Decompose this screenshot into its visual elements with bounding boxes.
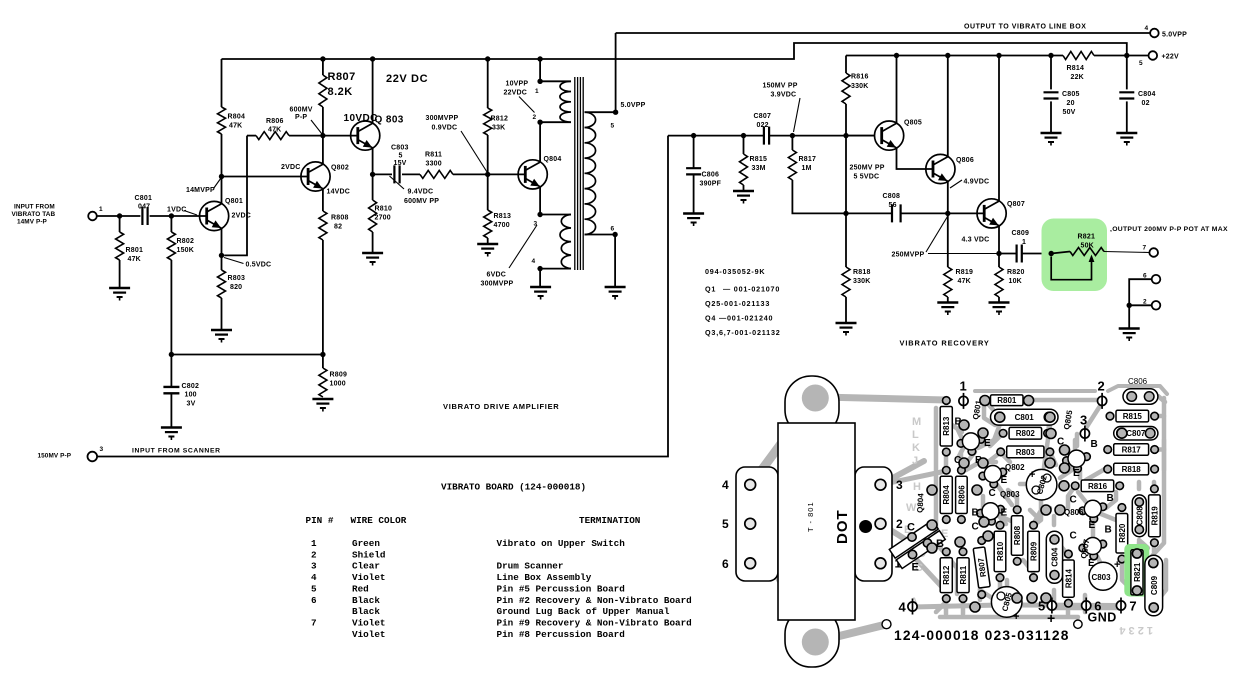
resistor R817 pcb — [1114, 444, 1149, 456]
trace r811 bottom — [961, 598, 966, 614]
R819 top pad — [1151, 485, 1159, 493]
R817 right pad — [1151, 446, 1159, 454]
resistor R812 pcb — [940, 558, 952, 593]
C804 inner bottom pad — [1050, 571, 1059, 580]
ground R813 — [477, 243, 498, 245]
trace r808 top — [1008, 490, 1017, 510]
svg-text:B: B — [972, 508, 979, 519]
via pad 15 — [1059, 481, 1069, 491]
svg-text:5: 5 — [399, 153, 403, 160]
svg-text:4.3 VDC: 4.3 VDC — [962, 237, 990, 244]
svg-text:R801: R801 — [126, 247, 144, 254]
via pad 10 — [978, 458, 988, 468]
svg-text:+: + — [1114, 559, 1120, 571]
wire input to C801 — [97, 215, 140, 217]
R815 right pad — [1151, 412, 1159, 420]
svg-text:M: M — [912, 416, 921, 428]
svg-text:Pin #9 Recovery & Non-Vibrato: Pin #9 Recovery & Non-Vibrato Board — [497, 618, 692, 629]
ground R815 — [733, 190, 754, 192]
svg-text:150MV PP: 150MV PP — [763, 83, 798, 90]
wire R820 to ground — [998, 297, 1000, 303]
node bottom rail right — [320, 352, 325, 357]
resistor R806 — [256, 132, 289, 140]
trace board top right edge — [1108, 386, 1167, 394]
svg-text:300MVPP: 300MVPP — [426, 115, 459, 122]
wire recovery input left — [668, 135, 763, 137]
transistor Q805 pcb — [1068, 450, 1085, 467]
svg-text:OUTPUT TO VIBRATO LINE BOX: OUTPUT TO VIBRATO LINE BOX — [964, 24, 1086, 31]
transistor Q801 pcb pad b — [957, 440, 965, 448]
svg-text:L: L — [912, 429, 919, 441]
ground C806 — [683, 212, 704, 214]
R804 bottom pad — [943, 516, 951, 524]
svg-text:330K: 330K — [853, 278, 871, 285]
svg-text:R821: R821 — [1133, 562, 1142, 582]
svg-text:124-000018 023-031128: 124-000018 023-031128 — [894, 628, 1070, 643]
svg-text:82: 82 — [334, 224, 342, 231]
phi pad 3 — [1080, 429, 1089, 438]
svg-text:TERMINATION: TERMINATION — [579, 515, 640, 526]
wire R806 left stub — [247, 135, 256, 137]
trace r813 to r804 — [944, 452, 949, 470]
svg-text:1: 1 — [535, 88, 539, 95]
wire Q806 collector — [947, 56, 949, 157]
svg-text:1VDC: 1VDC — [167, 207, 186, 214]
wire R812 bottom — [487, 135, 489, 174]
wire Q804 emitter — [539, 187, 541, 215]
svg-text:600MV: 600MV — [290, 107, 313, 114]
wire recovery rail — [846, 55, 1063, 57]
trace q802 web — [966, 462, 996, 470]
ground xfmr pin4 — [530, 286, 551, 288]
resistor R820 pcb — [1116, 514, 1128, 554]
pointer 0.5VDC — [224, 258, 244, 264]
terminal pin 5 +22V — [1149, 51, 1158, 60]
svg-text:14VDC: 14VDC — [327, 189, 351, 196]
wire terminal 2 — [1129, 304, 1152, 306]
svg-text:4700: 4700 — [494, 222, 510, 229]
wire R806 to node — [289, 135, 323, 137]
transformer T801 primary lower winding — [560, 215, 571, 269]
wire R817 top — [791, 136, 793, 150]
node Q807 rail — [996, 53, 1001, 58]
svg-text:+: + — [1013, 611, 1019, 623]
trace c805 up — [1005, 580, 1010, 590]
svg-text:B: B — [1091, 439, 1098, 450]
node C805 rail — [1048, 53, 1053, 58]
svg-text:C807: C807 — [754, 113, 772, 120]
svg-text:C805: C805 — [1062, 91, 1080, 98]
svg-text:+: + — [1047, 610, 1055, 626]
R807 bottom pad — [978, 591, 986, 599]
pad C809 top — [1149, 558, 1158, 567]
transistor Q803 — [351, 121, 380, 150]
svg-text:DOT: DOT — [834, 509, 851, 544]
R810 bottom pad — [996, 574, 1004, 582]
transistor Q801 — [200, 201, 229, 230]
resistor R802 — [167, 232, 175, 260]
R818 left pad — [1104, 465, 1112, 473]
capacitor C801 — [142, 207, 147, 225]
svg-text:Q804: Q804 — [544, 156, 562, 163]
resistor R801 — [116, 232, 124, 260]
wire terminal 6 — [1129, 279, 1152, 328]
svg-text:2VDC: 2VDC — [281, 164, 300, 171]
R806 bottom pad — [958, 516, 966, 524]
svg-text:15V: 15V — [394, 160, 407, 167]
node bottom rail left — [169, 352, 174, 357]
svg-text:150MV P-P: 150MV P-P — [38, 453, 72, 460]
via pad 16 — [1117, 428, 1127, 438]
R801 right pad — [1025, 397, 1033, 405]
svg-text:R812: R812 — [491, 116, 509, 123]
ground terminals — [1119, 327, 1140, 329]
svg-text:4: 4 — [532, 258, 536, 265]
trace c805 left — [980, 590, 992, 598]
wire R818 to ground — [845, 297, 847, 323]
resistor R818 — [842, 267, 850, 297]
trace r820 down — [1122, 560, 1130, 588]
trace c808 to r819 — [1139, 540, 1148, 548]
svg-text:5: 5 — [722, 517, 729, 531]
transistor Q804 pcb — [889, 520, 945, 568]
transistor Q803 pcb pad c — [997, 505, 1005, 513]
capacitor C804 pcb — [1046, 531, 1062, 583]
resistor R807 pcb — [973, 547, 990, 588]
wire R813 bottom — [487, 238, 489, 244]
node xfmr pin1 rail — [537, 56, 542, 61]
svg-text:J: J — [912, 455, 918, 467]
node xfmr pin4 — [537, 266, 542, 271]
svg-text:6: 6 — [611, 226, 615, 233]
trace mid vertical — [1073, 440, 1078, 452]
transistor Q806 — [926, 154, 955, 183]
pointer 4.9VDC — [950, 180, 962, 188]
svg-text:VIBRATO DRIVE AMPLIFIER: VIBRATO DRIVE AMPLIFIER — [443, 402, 559, 411]
C808 inner top pad — [1135, 498, 1143, 506]
wire pin5 stub — [585, 111, 616, 113]
svg-text:R816: R816 — [851, 74, 869, 81]
transistor Q807 pcb pad b — [1079, 544, 1087, 552]
svg-text:Drum Scanner: Drum Scanner — [497, 561, 564, 572]
wire C804 top — [1126, 56, 1128, 90]
svg-text:C802: C802 — [182, 383, 200, 390]
svg-text:C808: C808 — [1135, 506, 1144, 526]
svg-text:R817: R817 — [799, 156, 817, 163]
svg-text:E: E — [1089, 520, 1096, 531]
svg-text:47K: 47K — [229, 123, 242, 130]
svg-text:47K: 47K — [958, 278, 971, 285]
svg-text:Red: Red — [352, 583, 369, 594]
svg-text:R801: R801 — [997, 396, 1017, 405]
svg-text:250MVPP: 250MVPP — [892, 252, 925, 259]
transistor Q801 pcb pad e — [968, 448, 976, 456]
resistor R809 — [319, 368, 327, 397]
R812 bottom pad — [943, 595, 951, 603]
wire Q806 emitter — [947, 182, 949, 214]
svg-text:VIBRATO TAB: VIBRATO TAB — [12, 211, 56, 218]
capacitor C809 — [1017, 245, 1022, 263]
trace q807 to c803 — [1097, 556, 1100, 562]
svg-text:7: 7 — [1143, 245, 1147, 252]
trace r818 left — [1086, 469, 1105, 480]
wire R803 to ground — [221, 298, 223, 330]
wire R807 bottom — [322, 107, 324, 136]
trace r810 bottom — [998, 578, 1003, 600]
highlight R821 — [1042, 219, 1108, 292]
pointer 1VDC — [184, 211, 197, 216]
via pad 1 — [980, 396, 990, 406]
trace c801 to c802 — [1044, 425, 1050, 467]
svg-text:56: 56 — [889, 202, 897, 209]
R813 top pad — [943, 397, 951, 405]
svg-text:Q802: Q802 — [1005, 463, 1025, 472]
svg-text:1: 1 — [99, 206, 103, 213]
via pad 20 — [1055, 505, 1065, 515]
svg-text:2: 2 — [311, 549, 317, 560]
wire R809 top — [322, 355, 324, 369]
svg-text:50K: 50K — [1081, 243, 1094, 250]
resistor R815 — [740, 154, 748, 185]
svg-text:Q4 —001-021240: Q4 —001-021240 — [705, 314, 773, 323]
via pad 18 — [979, 517, 989, 527]
node input junction R801 — [117, 213, 122, 218]
resistor R819 pcb — [1149, 495, 1161, 537]
svg-text:R811: R811 — [425, 152, 442, 159]
wire R813 top — [487, 174, 489, 210]
transistor Q804 — [518, 160, 547, 189]
node C806 — [691, 133, 696, 138]
trace c806 wrap — [1158, 396, 1165, 402]
trace board right edge — [1152, 398, 1164, 556]
pad R821 bottom — [1132, 586, 1141, 595]
svg-text:GND: GND — [1088, 611, 1117, 625]
svg-text:Q3,6,7-001-021132: Q3,6,7-001-021132 — [705, 328, 781, 337]
node xfmr pin2 — [537, 120, 542, 125]
wire R802 to bottom rail — [170, 260, 172, 355]
svg-text:— 001-021070: — 001-021070 — [723, 285, 780, 294]
svg-text:VIBRATO BOARD (124-000018): VIBRATO BOARD (124-000018) — [441, 482, 586, 493]
svg-text:R803: R803 — [1016, 448, 1036, 457]
R820 top pad — [1118, 504, 1126, 512]
wire rail to terminal 5 — [1094, 55, 1149, 57]
svg-text:Ground Lug Back of Upper Manua: Ground Lug Back of Upper Manual — [497, 606, 670, 617]
svg-text:R813: R813 — [494, 213, 512, 220]
trace bottom lobe right — [815, 625, 884, 642]
svg-text:R814: R814 — [1064, 568, 1073, 588]
transformer T801 top tab — [785, 376, 839, 436]
svg-text:6: 6 — [722, 557, 729, 571]
capacitor C802 — [163, 387, 179, 393]
node Q803 emitter — [370, 172, 375, 177]
trace bottom left diag — [936, 602, 946, 612]
svg-text:390PF: 390PF — [700, 181, 722, 188]
wire R802 column — [170, 216, 172, 232]
via pad 6 — [978, 428, 988, 438]
node Q807 emitter — [996, 251, 1001, 256]
wire R821 to terminal 7 — [1104, 252, 1149, 253]
transistor Q805 pcb pad c — [1083, 453, 1091, 461]
svg-text:R806: R806 — [266, 118, 284, 125]
svg-text:5: 5 — [611, 123, 615, 130]
trace transformer top to pad4 — [752, 399, 814, 483]
resistor R812 — [484, 108, 492, 135]
R804 top pad — [943, 467, 951, 475]
svg-text:Q807: Q807 — [1007, 201, 1025, 208]
resistor R817 — [788, 150, 796, 180]
transformer pad 1 — [875, 558, 886, 569]
wire Q801 emitter — [221, 229, 223, 256]
wire pin3 stub — [540, 214, 571, 216]
trace board left edge — [936, 408, 957, 594]
wire R819 riser — [947, 213, 949, 267]
svg-text:C804: C804 — [1050, 547, 1059, 567]
resistor R810 pcb — [994, 531, 1006, 571]
via pad 25 — [970, 602, 980, 612]
svg-text:1000: 1000 — [330, 381, 346, 388]
R817 left pad — [1104, 446, 1112, 454]
trace phi5 to phi6 — [1052, 606, 1120, 611]
capacitor C807 pcb — [1114, 427, 1158, 441]
wire output bus — [616, 32, 1151, 34]
svg-text:R819: R819 — [956, 269, 974, 276]
via pad 8 — [1060, 445, 1070, 455]
svg-text:Q 803: Q 803 — [375, 115, 404, 126]
resistor R803 — [218, 270, 226, 298]
svg-text:022: 022 — [757, 122, 769, 129]
svg-text:Q801: Q801 — [225, 198, 243, 205]
svg-text:C803: C803 — [1091, 573, 1111, 582]
pointer 600MV P-P — [311, 120, 322, 134]
trace q807 up — [1091, 524, 1096, 537]
resistor R819 — [944, 267, 952, 297]
capacitor C809 pcb — [1145, 555, 1163, 616]
trace r809 top up — [1033, 508, 1050, 525]
wire R808 to bottom rail — [322, 240, 324, 355]
wire pin5 riser — [615, 33, 617, 112]
wire Q803 collector — [372, 59, 374, 123]
transistor Q802 pcb pad e — [990, 480, 998, 488]
svg-text:1: 1 — [1022, 239, 1026, 246]
trace c801 left diag — [985, 401, 1000, 418]
svg-text:1: 1 — [311, 538, 317, 549]
svg-text:R819: R819 — [1150, 506, 1159, 526]
capacitor C803 — [394, 165, 399, 183]
svg-text:2VDC: 2VDC — [232, 213, 251, 220]
svg-text:C801: C801 — [135, 195, 153, 202]
svg-text:C: C — [972, 522, 979, 533]
node Q803 base junction — [320, 133, 325, 138]
resistor R818 pcb — [1114, 463, 1149, 475]
R818 right pad — [1151, 465, 1159, 473]
svg-text:C: C — [1070, 531, 1077, 542]
capacitor C806 pcb — [1123, 389, 1158, 404]
wire pin4 stub — [540, 268, 571, 270]
trace bottom bus — [1015, 603, 1121, 609]
node Q806 rail — [945, 53, 950, 58]
R803 left pad — [997, 448, 1005, 456]
terminal pin 1 input — [88, 212, 97, 221]
via pad 26 — [955, 537, 965, 547]
wire pin6 to ground — [614, 235, 616, 288]
wire Q802 collector — [322, 136, 324, 165]
node Q805 base junction — [843, 133, 848, 138]
svg-text:INPUT FROM: INPUT FROM — [14, 204, 55, 211]
wire pin1 stub — [540, 80, 571, 82]
svg-text:3: 3 — [1080, 413, 1087, 428]
transistor Q805 pcb pad b — [1063, 457, 1071, 465]
wire Q807 collector — [998, 56, 1000, 202]
R807 top pad — [978, 537, 986, 545]
capacitor C805 pcb — [991, 587, 1022, 618]
svg-text:1M: 1M — [802, 165, 812, 172]
ground C805 — [1041, 132, 1062, 134]
svg-text:33M: 33M — [752, 165, 766, 172]
transformer T801 left bracket — [736, 467, 778, 581]
via pad 3 — [995, 412, 1005, 422]
node 0.5VDC — [219, 253, 224, 258]
ground R803 — [211, 329, 232, 331]
capacitor C808 pcb — [1132, 495, 1146, 537]
terminal pin 7 output — [1149, 248, 1158, 257]
via pad 23 — [1027, 593, 1037, 603]
wire Q803 emitter — [372, 148, 374, 174]
via pad 5 — [959, 420, 969, 430]
R811 top pad — [959, 548, 967, 556]
trace pad2 to pad3 pcb — [1086, 406, 1100, 428]
terminal pin 4 output — [1150, 29, 1159, 38]
wire Q801 collector — [221, 177, 223, 204]
svg-text:4: 4 — [1145, 25, 1149, 32]
resistor R811 pcb — [957, 558, 969, 593]
svg-text:T - 801: T - 801 — [806, 501, 815, 532]
trace right col down — [1162, 440, 1167, 470]
svg-text:B: B — [1105, 525, 1112, 536]
node R807 rail — [320, 56, 325, 61]
ground R810 — [362, 252, 383, 254]
transistor Q805 pcb pad e — [1074, 465, 1082, 473]
trace top lobe to board — [820, 397, 946, 400]
svg-text:C: C — [989, 488, 996, 499]
svg-text:R809: R809 — [1030, 541, 1039, 561]
wire R811 to node — [453, 173, 488, 175]
svg-text:C: C — [1070, 495, 1077, 506]
resistor R816 — [842, 73, 850, 104]
svg-text:Green: Green — [352, 538, 380, 549]
svg-text:B: B — [1107, 493, 1114, 504]
svg-text:R815: R815 — [750, 156, 768, 163]
C804 inner top pad — [1050, 535, 1059, 544]
pad Q804 e — [908, 550, 916, 558]
svg-text:3: 3 — [311, 561, 317, 572]
terminal pin 6 — [1152, 275, 1161, 284]
transistor Q806 pcb pad c — [1099, 503, 1107, 511]
R802 left pad — [999, 430, 1007, 438]
svg-text:3: 3 — [534, 221, 538, 228]
R808 top pad — [1013, 506, 1021, 514]
svg-text:20: 20 — [1067, 100, 1075, 107]
svg-text:E: E — [1073, 468, 1080, 479]
R814 top pad — [1065, 550, 1073, 558]
wire Q803 base — [323, 135, 358, 137]
transistor Q807 pcb pad c — [1099, 540, 1107, 548]
via pad 27 — [983, 531, 993, 541]
svg-text:+: + — [1029, 469, 1035, 481]
trace top row right — [1029, 398, 1097, 403]
phi pad 4 — [908, 602, 917, 611]
svg-text:R818: R818 — [853, 269, 871, 276]
transistor Q802 pcb pad b — [979, 472, 987, 480]
